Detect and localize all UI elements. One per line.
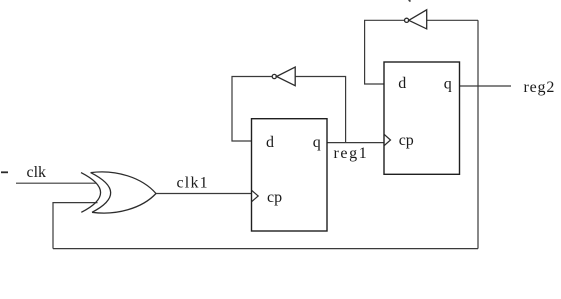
svg-text:cp: cp	[399, 132, 414, 149]
wire reg2 output stub	[460, 85, 512, 87]
inverter G1	[272, 67, 295, 86]
wire reg1 (FF1 q to FF2 cp)	[327, 142, 384, 144]
wire feedback bottom	[53, 248, 478, 250]
xor gate U1	[81, 172, 156, 213]
svg-text:q: q	[444, 76, 452, 93]
wire feedback right vertical	[477, 20, 479, 248]
svg-text:d: d	[398, 75, 406, 92]
inverter G2	[405, 10, 427, 29]
wire clk input	[16, 182, 97, 184]
wire xor lower input	[53, 203, 98, 249]
svg-text:q: q	[313, 134, 321, 151]
input terminal dash	[1, 171, 8, 173]
wire clk1	[156, 193, 252, 195]
svg-text:reg2: reg2	[524, 79, 556, 96]
wire FF2 feedback: q junction up to inverter G2 input side	[427, 19, 478, 21]
wire FF1 feedback: q junction up to inverter G1 output side	[295, 77, 345, 143]
FF1 clock wedge	[252, 191, 258, 202]
svg-text:d: d	[266, 134, 274, 151]
flip-flop FF2	[384, 62, 460, 174]
stray mark top edge	[409, 0, 411, 2]
svg-text:clk1: clk1	[177, 175, 209, 192]
flip-flop FF1	[252, 119, 328, 231]
svg-text:clk: clk	[27, 164, 47, 181]
wire FF2 feedback: inverter G2 output to d input	[365, 20, 405, 84]
FF2 clock wedge	[384, 135, 390, 146]
svg-text:reg1: reg1	[334, 145, 369, 162]
svg-text:cp: cp	[267, 189, 282, 206]
wire FF1 feedback: inverter G1 output to d input	[232, 77, 272, 142]
